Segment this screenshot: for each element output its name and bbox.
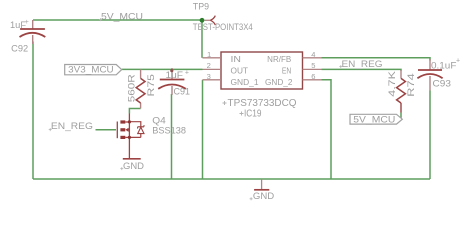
- svg-text:1: 1: [207, 50, 211, 59]
- pin 5: [303, 68, 322, 70]
- svg-text:0.1uF: 0.1uF: [431, 60, 457, 70]
- svg-text:560R: 560R: [126, 74, 136, 103]
- net flag 5V_MCU: [350, 114, 402, 124]
- wire C93 bottom down: [429, 91, 431, 180]
- svg-text:C91: C91: [174, 87, 191, 97]
- svg-text:TEST-POINT3X4: TEST-POINT3X4: [193, 22, 253, 32]
- wire bottom GND rail: [33, 178, 430, 180]
- svg-text:OUT: OUT: [231, 67, 249, 76]
- wire EN_REG to Q4 gate: [96, 129, 117, 131]
- wire pin3 GND_1 down: [202, 80, 204, 179]
- svg-text:C92: C92: [11, 43, 28, 53]
- pin 1: [203, 57, 222, 59]
- origin tick 5V_MCU top: [99, 18, 102, 21]
- svg-text:GND: GND: [123, 161, 144, 171]
- origin tick GND Q4: [120, 167, 123, 170]
- origin tick EN_REG right: [339, 65, 342, 68]
- svg-text:R75: R75: [146, 74, 156, 97]
- svg-text:4.7K: 4.7K: [387, 71, 397, 97]
- bulk arrow: [128, 129, 130, 131]
- svg-text:NR/FB: NR/FB: [267, 55, 291, 64]
- wire 3V3_MCU net: [122, 68, 203, 70]
- wire 5V_MCU top horizontal: [33, 19, 202, 21]
- resistor R74: [397, 70, 406, 119]
- name label IC19: [240, 112, 244, 116]
- wire junction to IC pin1 vertical: [201, 20, 203, 58]
- svg-text:+: +: [456, 58, 460, 65]
- pin 3: [203, 79, 222, 81]
- net flag 3V3_MCU: [65, 65, 122, 75]
- test point TP9 symbol: [205, 16, 216, 25]
- pin 2: [203, 68, 222, 70]
- svg-text:4: 4: [311, 50, 315, 59]
- origin tick GND center: [250, 197, 253, 200]
- svg-text:C93: C93: [433, 79, 451, 89]
- wire pin5 EN_REG net: [322, 69, 402, 71]
- svg-text:5V_MCU: 5V_MCU: [353, 114, 395, 124]
- wire pin4 NR/FB to C93: [322, 58, 431, 61]
- wire C91 bottom down: [171, 94, 173, 179]
- resistor R75: [136, 69, 145, 108]
- svg-text:2: 2: [207, 61, 211, 70]
- capacitor C91: [158, 68, 186, 95]
- svg-text:TPS73733DCQ: TPS73733DCQ: [228, 98, 297, 109]
- svg-text:EN_REG: EN_REG: [51, 121, 93, 131]
- ground center bottom: [253, 179, 275, 201]
- node junction TP9: [200, 18, 205, 23]
- pin 6: [303, 79, 322, 81]
- gate line: [116, 122, 118, 139]
- svg-text:3V3_MCU: 3V3_MCU: [68, 65, 114, 75]
- wire pin6 GND_2 down: [322, 80, 332, 179]
- svg-text:IC19: IC19: [244, 108, 262, 119]
- svg-text:+: +: [185, 70, 189, 77]
- capacitor C93: [417, 59, 442, 91]
- svg-text:+: +: [25, 19, 29, 26]
- value label TPS73733DCQ: [223, 101, 227, 105]
- svg-text:5V_MCU: 5V_MCU: [101, 11, 143, 22]
- svg-text:5: 5: [311, 61, 315, 70]
- svg-text:GND_1: GND_1: [231, 78, 259, 87]
- svg-text:GND_2: GND_2: [265, 78, 292, 87]
- svg-text:R74: R74: [406, 73, 416, 97]
- transistor Q4 BSS138: [117, 114, 144, 159]
- channel bars: [120, 120, 125, 123]
- svg-text:BSS138: BSS138: [152, 125, 186, 136]
- pin 4: [303, 57, 322, 59]
- svg-text:IN: IN: [231, 55, 242, 64]
- origin tick EN_REG left: [49, 128, 52, 131]
- wire left vertical below C92: [32, 42, 34, 180]
- svg-text:TP9: TP9: [193, 2, 209, 12]
- svg-text:6: 6: [311, 72, 315, 81]
- capacitor C92: [20, 20, 46, 44]
- svg-text:1uF: 1uF: [166, 70, 184, 80]
- svg-text:EN: EN: [282, 67, 291, 76]
- svg-text:GND: GND: [253, 191, 275, 201]
- ground under Q4: [123, 159, 144, 171]
- svg-text:EN_REG: EN_REG: [342, 59, 383, 69]
- wire R75 bottom to Q4 drain: [129, 109, 140, 114]
- body diode: [129, 122, 140, 127]
- drain lead: [128, 114, 130, 159]
- op-amp/regulator IC19 box: [221, 52, 303, 89]
- svg-text:3: 3: [207, 72, 211, 81]
